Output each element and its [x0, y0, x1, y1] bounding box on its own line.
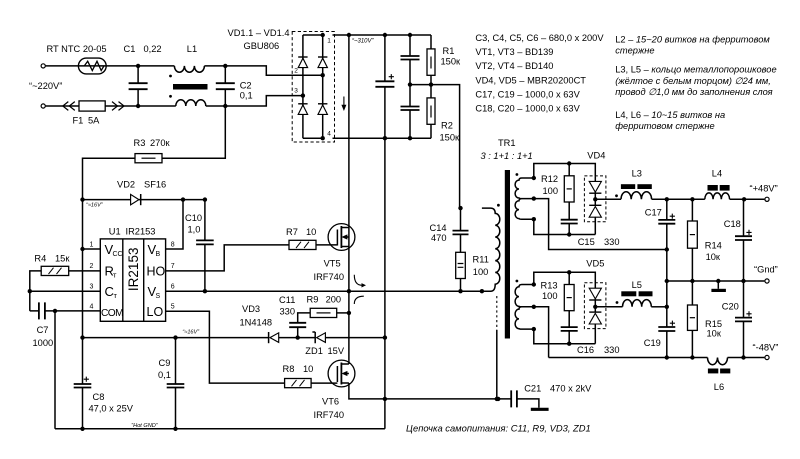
label: winding notes: [615, 35, 776, 132]
capacitor C18 1000,0x63V: [724, 199, 752, 281]
wire: +310V rail: [333, 33, 432, 37]
svg-text:C18, C20 – 1000,0 x 63V: C18, C20 – 1000,0 x 63V: [475, 104, 580, 114]
svg-text:15к: 15к: [55, 254, 70, 264]
svg-text:C8: C8: [93, 392, 105, 402]
svg-text:VD1.1 – VD1.4: VD1.1 – VD1.4: [228, 28, 290, 38]
svg-text:COM: COM: [101, 308, 123, 319]
svg-text:C15: C15: [578, 237, 595, 247]
svg-text:CC: CC: [113, 251, 123, 258]
fuse F1 5A: [73, 101, 106, 126]
svg-text:1000: 1000: [33, 338, 54, 348]
svg-text:4: 4: [327, 131, 331, 138]
wire: VT5 drain line: [348, 35, 350, 228]
capacitor C15 330: [561, 220, 620, 247]
node: +48V output terminal: [750, 184, 778, 202]
svg-text:“≈16V”: “≈16V”: [86, 203, 104, 209]
svg-text:C16: C16: [577, 345, 594, 355]
svg-text:C19: C19: [644, 338, 661, 348]
svg-text:L4: L4: [712, 169, 722, 179]
svg-text:IR2153: IR2153: [126, 227, 156, 237]
svg-text:VD4: VD4: [587, 151, 605, 161]
wire: 16V rail horizontal: [83, 335, 385, 339]
wire: L1 to bridge AC1: [204, 64, 322, 75]
inductor L1 common-mode choke: [169, 44, 207, 106]
transformer TR1 secondary 2 winding: [515, 280, 536, 332]
svg-text:R13: R13: [541, 280, 558, 290]
svg-text:“-48V”: “-48V”: [753, 342, 779, 352]
svg-text:LO: LO: [147, 305, 164, 319]
svg-text:R8: R8: [283, 364, 295, 374]
svg-text:C1: C1: [124, 44, 136, 54]
wire: pin8 VB to bootstrap: [166, 200, 183, 249]
svg-text:C17: C17: [645, 208, 662, 218]
svg-text:C21: C21: [524, 384, 541, 394]
wire: VD5 common cathode to L5: [595, 301, 622, 307]
resistor R8 10: [283, 364, 338, 388]
label: ~310V: [352, 39, 375, 45]
wire: bottom AC line: [46, 105, 79, 107]
wire: bridge negative rail: [333, 137, 432, 139]
op-amp U1 IR2153 driver IC: [100, 227, 165, 322]
resistor R13 100: [541, 272, 575, 327]
svg-text:0,22: 0,22: [144, 44, 162, 54]
svg-text:330: 330: [280, 307, 296, 317]
svg-text:VD4, VD5 – MBR20200CT: VD4, VD5 – MBR20200CT: [475, 76, 586, 86]
svg-text:TR1: TR1: [498, 138, 516, 148]
svg-text:C9: C9: [159, 358, 171, 368]
wire: sec2 center tap to -48V rail: [534, 307, 549, 358]
svg-text:C2: C2: [240, 81, 252, 91]
capacitor C8 47,0 x 25V: [74, 377, 134, 431]
svg-text:“Gnd”: “Gnd”: [754, 265, 778, 275]
svg-text:HO: HO: [147, 264, 166, 278]
label: IC pin numbers: [90, 242, 175, 311]
wire: capacitive divider midpoint to primary: [410, 85, 460, 209]
svg-text:C18: C18: [724, 219, 741, 229]
dual diode VD5 MBR20200CT: [584, 259, 606, 344]
node: Gnd output terminal: [754, 265, 778, 283]
label: bridge pin numbers: [294, 38, 331, 138]
wire: sec1 center tap to Gnd: [534, 199, 667, 250]
svg-text:3: 3: [294, 88, 298, 95]
annotation: dead-time arrows: [354, 275, 366, 304]
svg-text:(жёлтое с белым торцом) ∅24 мм: (жёлтое с белым торцом) ∅24 мм,: [615, 76, 771, 86]
svg-text:1: 1: [90, 242, 94, 249]
wire: VT6 drain and source: [349, 360, 511, 401]
svg-text:R2: R2: [441, 121, 453, 131]
wire: hot ground rail: [55, 423, 385, 429]
label: parts list: [475, 33, 604, 114]
svg-text:3: 3: [90, 284, 94, 291]
svg-text:150к: 150к: [441, 57, 462, 67]
resistor R12 100: [541, 164, 574, 220]
transformer TR1 core: [505, 170, 510, 339]
wire: pin7 HO to R7: [166, 245, 289, 271]
svg-text:“~310V”: “~310V”: [352, 39, 375, 45]
svg-text:ферритовом стержне: ферритовом стержне: [615, 121, 714, 131]
resistor R9 200: [307, 295, 349, 318]
capacitor C7 1000: [30, 302, 101, 348]
svg-text:47,0 x 25V: 47,0 x 25V: [89, 404, 134, 414]
resistor R14 10k: [688, 199, 722, 281]
svg-text:L6: L6: [714, 382, 724, 392]
wire: COM to hot ground rail: [54, 311, 56, 429]
wire: sec1 top end to VD4 anode A: [534, 161, 596, 178]
svg-text:IR2153: IR2153: [126, 248, 141, 292]
diode VD1.4: [318, 104, 327, 115]
capacitor C20 1000,0x63V: [722, 281, 752, 358]
dual diode VD4 MBR20200CT: [584, 151, 606, 235]
wire: pin3 CT stub: [30, 290, 101, 292]
svg-text:IRF740: IRF740: [314, 272, 345, 282]
svg-text:10к: 10к: [707, 329, 722, 339]
svg-text:5: 5: [171, 304, 175, 311]
svg-text:0,1: 0,1: [158, 370, 171, 380]
svg-text:RT NTC 20-05: RT NTC 20-05: [47, 44, 107, 54]
label: IC pin names: [101, 242, 166, 319]
transistor VT5 IRF740 MOSFET: [314, 224, 355, 282]
svg-text:C: C: [105, 284, 114, 299]
svg-text:R12: R12: [541, 174, 558, 184]
wire: pin6 VS to switch node and primary: [166, 289, 484, 293]
svg-text:200: 200: [326, 295, 342, 305]
capacitor C10 1,0: [185, 200, 214, 294]
svg-text:B: B: [156, 251, 161, 258]
wire: sec1 bottom end to VD4 anode B: [534, 219, 596, 237]
wire: VCC rail left vertical: [80, 200, 84, 429]
svg-text:470: 470: [431, 233, 447, 243]
wire: transformer screen (dashed): [495, 296, 499, 401]
diode VD1.1: [298, 57, 307, 68]
svg-text:100: 100: [542, 291, 558, 301]
capacitor C19 1000,0x63V: [644, 321, 676, 348]
inductor L3: [621, 169, 652, 200]
inductor L5: [621, 280, 667, 307]
svg-text:7: 7: [171, 263, 175, 270]
svg-text:L1: L1: [187, 44, 197, 54]
svg-text:10: 10: [303, 364, 313, 374]
svg-text:R9: R9: [307, 295, 319, 305]
svg-text:C10: C10: [185, 213, 202, 223]
node: AC input terminal top: [41, 64, 45, 68]
svg-text:SF16: SF16: [144, 180, 166, 190]
svg-text:3 : 1+1 : 1+1: 3 : 1+1 : 1+1: [481, 151, 533, 161]
svg-text:стержне: стержне: [615, 46, 654, 56]
diode VD1.2: [318, 57, 327, 68]
capacitor C16 330: [561, 327, 620, 355]
svg-text:1N4148: 1N4148: [240, 318, 273, 328]
wire: Gnd bus vertical via C17/C19 column: [665, 247, 669, 357]
svg-text:0,1: 0,1: [240, 91, 253, 101]
wire: pin1 VCC stub: [83, 248, 101, 250]
label: TR1: [481, 138, 533, 161]
wire: fuse to C1 bottom node: [105, 105, 176, 107]
svg-text:L3: L3: [632, 169, 642, 179]
svg-text:4: 4: [90, 304, 94, 311]
wire: sec2 top end to VD5 anode A: [534, 270, 596, 284]
svg-text:ZD1: ZD1: [305, 346, 323, 356]
svg-text:R3: R3: [134, 138, 146, 148]
resistor R15 10k: [688, 281, 723, 358]
svg-text:т: т: [113, 270, 117, 279]
svg-text:VD5: VD5: [586, 259, 604, 269]
inductor L6: [708, 358, 731, 393]
capacitor C5: [401, 35, 420, 85]
diode VD1.3: [298, 104, 307, 115]
svg-text:S: S: [156, 293, 161, 300]
wire: top AC line to C1 node: [136, 64, 140, 68]
svg-text:VT1, VT3 – BD139: VT1, VT3 – BD139: [475, 47, 553, 57]
resistor R1 150k: [427, 35, 461, 75]
connector chevrons right: [112, 102, 124, 111]
svg-text:VT2, VT4 – BD140: VT2, VT4 – BD140: [475, 61, 553, 71]
svg-text:15V: 15V: [328, 346, 345, 356]
capacitor C17 1000,0x63V: [645, 199, 676, 249]
label: ~220V: [29, 81, 62, 91]
svg-text:1,0: 1,0: [188, 225, 201, 235]
svg-text:провод ∅1,0 мм до заполнения с: провод ∅1,0 мм до заполнения слоя: [615, 87, 772, 97]
svg-text:U1: U1: [109, 227, 121, 237]
label: 16V rail bottom: [182, 330, 200, 336]
svg-text:270к: 270к: [150, 138, 171, 148]
label: 16V rail top: [86, 203, 104, 209]
svg-text:10: 10: [306, 227, 316, 237]
capacitor C1 0,22: [124, 44, 162, 108]
resistor R3 270k: [83, 106, 226, 200]
capacitor C21 470x2kV: [511, 384, 592, 408]
svg-text:R4: R4: [34, 254, 46, 264]
svg-text:470 x 2kV: 470 x 2kV: [550, 384, 592, 394]
wire: Gnd bus horizontal: [667, 279, 765, 283]
resistor R11 100: [456, 252, 489, 291]
capacitor C14 470: [430, 206, 469, 252]
svg-text:C17, C19 – 1000,0 x 63V: C17, C19 – 1000,0 x 63V: [475, 90, 580, 100]
svg-text:100: 100: [543, 186, 559, 196]
svg-text:330: 330: [604, 237, 620, 247]
svg-text:C20: C20: [722, 302, 739, 312]
diode VD2 SF16: [80, 180, 207, 206]
svg-text:VD3: VD3: [242, 304, 260, 314]
svg-text:Цепочка самопитания: C11, R9,: Цепочка самопитания: C11, R9, VD3, ZD1: [406, 423, 591, 434]
zener ZD1 15V: [305, 332, 345, 356]
svg-text:“Hot GND”: “Hot GND”: [131, 423, 159, 429]
svg-text:C14: C14: [430, 223, 447, 233]
svg-text:IRF740: IRF740: [314, 410, 345, 420]
label: self-supply note: [406, 423, 591, 434]
svg-text:“~220V”: “~220V”: [29, 81, 62, 91]
wire: bridge internal rails: [301, 33, 325, 141]
capacitor C6: [401, 82, 420, 140]
svg-text:GBU806: GBU806: [244, 41, 280, 51]
svg-text:C7: C7: [37, 325, 49, 335]
svg-text:2: 2: [90, 263, 94, 270]
svg-text:VT5: VT5: [324, 259, 341, 269]
wire: +48V rail: [595, 194, 764, 201]
svg-text:C11: C11: [279, 295, 295, 305]
svg-text:330: 330: [604, 345, 620, 355]
transformer TR1 primary winding: [482, 204, 500, 291]
annotation: current direction arrow: [341, 97, 346, 112]
svg-text:100: 100: [473, 267, 489, 277]
resistor R2 150k: [427, 75, 460, 142]
thermistor RT NTC 20-05: [46, 44, 175, 74]
ground bar for C21: [531, 408, 549, 411]
wire: 0V drop to VT6 source: [383, 138, 387, 429]
svg-text:F1: F1: [73, 116, 84, 126]
svg-text:150к: 150к: [440, 133, 461, 143]
capacitor C3 electrolytic 680,0 x 200V: [375, 35, 394, 140]
svg-text:R11: R11: [473, 255, 489, 265]
wire: pin5 LO to R8: [166, 311, 285, 383]
svg-text:2: 2: [294, 68, 298, 75]
capacitor C2 0,1: [216, 66, 253, 108]
bridge rectifier VD1.1-VD1.4 GBU806 dashed outline: [228, 28, 335, 142]
ground symbol on Gnd bus: [711, 279, 726, 291]
svg-text:VD2: VD2: [117, 180, 135, 190]
svg-text:L3, L5 – кольцо металлопорошко: L3, L5 – кольцо металлопорошковое: [615, 65, 776, 75]
capacitor C11 330: [279, 295, 310, 338]
resistor R4 15k: [28, 254, 101, 311]
svg-text:R1: R1: [443, 46, 455, 56]
inductor L4: [705, 169, 730, 200]
svg-text:R14: R14: [705, 241, 722, 251]
connector chevrons left: [63, 102, 75, 111]
diode VD3 1N4148: [240, 304, 279, 343]
wire: switch node vertical: [347, 228, 351, 361]
wire: L1 to bridge AC2: [206, 96, 303, 106]
svg-text:10к: 10к: [706, 252, 721, 262]
svg-text:R15: R15: [705, 319, 722, 329]
svg-text:5A: 5A: [88, 116, 100, 126]
node: AC input terminal bottom: [41, 104, 45, 108]
svg-text:R7: R7: [286, 227, 298, 237]
capacitor C9 0,1: [158, 335, 184, 431]
svg-text:“+48V”: “+48V”: [750, 184, 778, 194]
svg-text:т: т: [114, 291, 118, 300]
resistor R7 10: [286, 227, 337, 250]
svg-text:8: 8: [171, 242, 175, 249]
svg-text:L4, L6 – 10~15 витков на: L4, L6 – 10~15 витков на: [615, 110, 725, 120]
svg-text:“≈16V”: “≈16V”: [182, 330, 200, 336]
svg-text:VT6: VT6: [322, 397, 339, 407]
svg-text:6: 6: [171, 284, 175, 291]
svg-text:C3, C4, C5, C6 – 680,0 x 200V: C3, C4, C5, C6 – 680,0 x 200V: [475, 33, 604, 43]
node: -48V output terminal: [753, 342, 779, 359]
transformer TR1 secondary 1 winding: [515, 173, 536, 221]
transistor VT6 IRF740 MOSFET: [314, 360, 355, 420]
svg-text:L2 – 15~20 витков на ферритово: L2 – 15~20 витков на ферритовом: [615, 35, 770, 45]
svg-text:1: 1: [327, 38, 331, 45]
wire: -48V rail: [549, 355, 765, 359]
wire: sec2 bottom end to VD5 anode B: [534, 329, 596, 346]
svg-text:L5: L5: [632, 280, 642, 290]
